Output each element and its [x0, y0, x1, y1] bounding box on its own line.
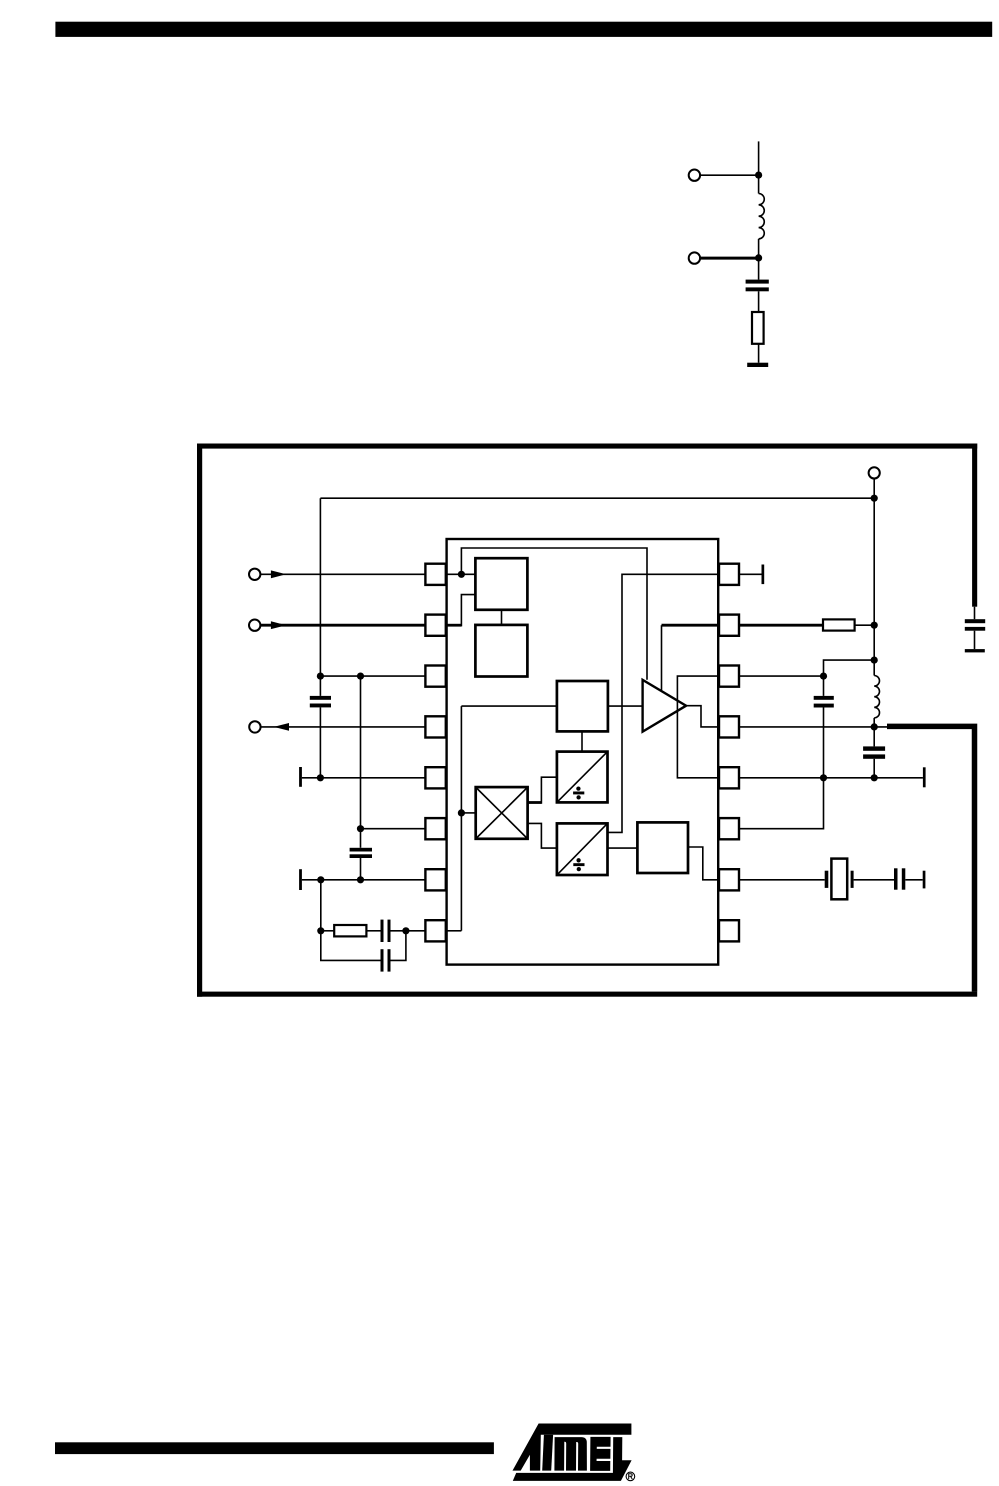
wire input1 to pin 1	[260, 573, 425, 575]
wire ANT1 to node	[701, 174, 759, 176]
junction node A	[755, 172, 762, 179]
wire L1 to node B	[758, 239, 760, 258]
junction pin1 node	[458, 571, 465, 578]
junction row5 right a	[820, 774, 827, 781]
wire supply rail top	[320, 497, 874, 499]
wire row5 to pin 5	[302, 777, 426, 779]
junction node C	[871, 495, 878, 502]
pin 14	[719, 666, 739, 687]
wire C3 to row5 junction	[319, 707, 321, 777]
resistor R2	[334, 925, 366, 936]
wire internal bus pin8 to mixer and C	[460, 706, 462, 931]
wire C7 to row5 right junction	[823, 708, 825, 778]
wire C6 to row8 junction right	[391, 931, 406, 961]
pin 3	[425, 666, 445, 687]
wire node B to C1	[758, 258, 760, 280]
wire pin15 to amp (thick)	[662, 624, 720, 627]
pin 1	[425, 564, 445, 585]
capacitor C8	[863, 746, 885, 750]
terminal VS	[869, 467, 880, 478]
capacitor C2	[965, 619, 985, 623]
wire pin11 jog to row5 junction	[739, 778, 824, 829]
wire pin14 to node D	[739, 675, 824, 677]
terminal input 2	[249, 620, 260, 631]
arrow input 1	[271, 570, 286, 578]
Atmel logo letter M	[554, 1437, 587, 1471]
junction node B	[755, 254, 762, 261]
Atmel logo registered mark	[626, 1472, 635, 1481]
wire block C input	[461, 705, 557, 707]
wire row7 down to row8 and lower loop	[321, 880, 381, 961]
junction row6 left	[357, 825, 364, 832]
wire pin13 to antenna junction	[739, 726, 887, 728]
wire R1 to ground	[758, 344, 760, 363]
stub terminator row7 right	[923, 871, 926, 889]
wire node D to C7	[823, 676, 825, 696]
resistor R3	[823, 619, 855, 630]
terminal ANT1	[689, 170, 700, 181]
capacitor C7	[814, 696, 834, 700]
wire pin12 row to stub	[739, 777, 923, 779]
pin 12	[719, 767, 739, 788]
ground	[965, 649, 985, 652]
junction row7 mid	[357, 876, 364, 883]
loop antenna frame bottom side	[197, 992, 977, 997]
wire C2 to ground	[974, 631, 976, 649]
loop antenna frame top side	[197, 444, 977, 449]
capacitor C9	[894, 868, 898, 889]
header rule	[55, 22, 992, 37]
inductor L2	[874, 676, 879, 718]
wire pin1 feed through to block A	[447, 573, 476, 575]
block B	[475, 625, 527, 677]
footer rule	[55, 1442, 494, 1454]
wire block C to divider 1	[581, 731, 583, 751]
divider 2	[557, 823, 608, 875]
junction supply R3	[871, 622, 878, 629]
Atmel logo letter T stem	[542, 1435, 553, 1471]
pin 2	[425, 615, 445, 636]
wire C9 to stub	[905, 879, 922, 881]
Atmel logo top bar and letter A	[513, 1424, 632, 1471]
Atmel logo letter E	[590, 1437, 611, 1471]
resistor R1	[752, 312, 764, 344]
wire pin14 link to pin12	[677, 676, 719, 778]
wire mixer lower jog to divider 2	[528, 823, 557, 848]
pin 8	[425, 920, 445, 941]
op-amp power amplifier	[643, 680, 687, 732]
wire block E output to pin 10	[688, 847, 719, 880]
wire R2 to C5	[366, 930, 380, 932]
mixer X1	[476, 787, 528, 839]
wire R3 to supply column	[855, 624, 875, 626]
wire L2 to antenna junction	[873, 718, 875, 747]
block E	[637, 822, 688, 873]
wire block A to block B	[501, 610, 503, 625]
Atmel logo letter L and bottom bar	[513, 1437, 632, 1481]
wire amp upper input drop	[661, 625, 663, 690]
wire pin2 jog up to block A	[461, 595, 475, 627]
terminal ANT2	[689, 252, 700, 263]
wire pin8 into IC	[447, 930, 462, 932]
junction row7 left	[317, 876, 324, 883]
wire pin10 to crystal	[739, 879, 825, 881]
wire row3 junction to C3	[319, 676, 321, 696]
wire C5 to pin 8	[391, 930, 426, 932]
wire pin15 to R3 (thick)	[739, 624, 823, 627]
pin 10	[719, 869, 739, 890]
stub terminator row5 left	[299, 767, 302, 787]
wire row3 to pin 3	[320, 675, 425, 677]
wire node A to L1	[758, 175, 760, 193]
pin 7	[425, 869, 445, 890]
wire ANT2 to node B	[701, 257, 759, 260]
arrow output	[274, 723, 289, 731]
capacitor C6	[381, 949, 384, 971]
wire crystal to C9	[854, 879, 894, 881]
wire top stub into antenna node	[758, 141, 760, 175]
divide symbol divider 1	[573, 792, 584, 795]
wire row8 junction to R2	[321, 930, 334, 932]
divide symbol divider 2	[573, 863, 584, 866]
terminal input 1	[249, 569, 260, 580]
pin 6	[425, 818, 445, 839]
divider 1	[557, 752, 608, 803]
wire row6 to pin 6	[361, 828, 426, 830]
wire block C output to amp	[608, 705, 643, 707]
op-amp U1 IC body	[447, 539, 719, 965]
wire C4 to row7	[360, 858, 362, 880]
stub terminator row7 left	[299, 869, 302, 890]
block A	[475, 558, 527, 610]
junction node D	[820, 673, 827, 680]
crystal Q1	[825, 871, 829, 888]
wire pin1 node up and across to amp input	[461, 548, 647, 680]
loop antenna frame left side	[197, 444, 202, 997]
loop antenna feed stub (thick)	[887, 726, 975, 991]
stub terminator row5 right	[923, 767, 926, 787]
wire row7 to pin 7	[302, 879, 426, 881]
wire pin 4 to output	[261, 726, 426, 728]
wire VS to node C	[873, 479, 875, 499]
capacitor C3	[310, 696, 331, 700]
junction row8 left	[317, 927, 324, 934]
capacitor C1	[746, 280, 769, 284]
junction row5 left	[317, 774, 324, 781]
wire junction to mixer	[461, 812, 475, 814]
ground	[747, 363, 768, 367]
wire input2 to pin 2	[260, 624, 425, 627]
wire divider 2 to block E	[608, 847, 638, 849]
junction supply L2 top	[871, 657, 878, 664]
loop antenna frame right upper segment	[972, 444, 977, 607]
junction row8 right	[402, 927, 409, 934]
terminal output	[249, 721, 260, 732]
pin 4	[425, 716, 445, 737]
pin 15	[719, 615, 739, 636]
inductor L1	[759, 194, 765, 239]
arrow input 2	[271, 621, 286, 629]
wire mixer upper jog to divider 1	[541, 777, 557, 804]
wire node D up to supply column	[824, 660, 875, 676]
wire supply rail left drop	[319, 498, 321, 676]
wire pin2 to block A (thick)	[447, 624, 462, 627]
pin 9	[719, 920, 739, 941]
block C	[557, 681, 608, 731]
wire mixer upper output (thick)	[528, 801, 542, 804]
wire amp output to pin 13	[686, 706, 719, 727]
junction antenna feed	[871, 723, 878, 730]
wire pin16 stub	[739, 573, 762, 575]
wire frame end to C2	[974, 607, 976, 620]
capacitor C5	[381, 920, 384, 942]
junction mixer input	[458, 809, 465, 816]
wire C8 to row5 right	[873, 759, 875, 778]
pin 16	[719, 564, 739, 585]
wire row3mid junction down to row6	[360, 676, 362, 848]
stub terminator pin16	[762, 565, 765, 585]
junction row5 right b	[871, 774, 878, 781]
pin 13	[719, 716, 739, 737]
pin 11	[719, 818, 739, 839]
wire C1 to R1	[758, 291, 760, 312]
wire divider 2 output up to pin 16	[608, 574, 720, 832]
junction row3 left	[317, 673, 324, 680]
junction row3 mid	[357, 673, 364, 680]
wire supply column	[873, 498, 875, 675]
capacitor C4	[350, 848, 372, 852]
pin 5	[425, 767, 445, 788]
